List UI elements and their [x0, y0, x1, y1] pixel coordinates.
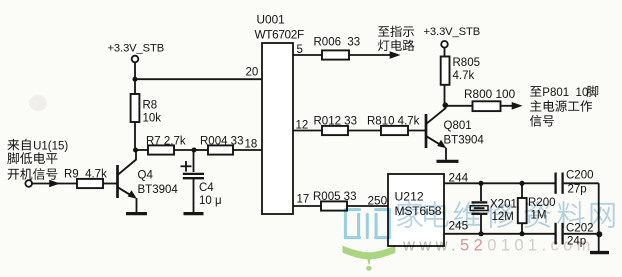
wire R800 to P801 arrow	[501, 102, 523, 110]
node R7/R004/C4 junction	[192, 148, 197, 153]
wire right rail C200/C202 to ground	[598, 183, 600, 251]
op-amp U001 WT6702F (IC box)	[255, 13, 304, 215]
node 244/R200	[520, 181, 525, 186]
svg-text:245: 245	[449, 219, 469, 233]
node R805/Q801 collector/R800 junction	[443, 102, 449, 108]
capacitor C200 27p	[556, 170, 599, 196]
svg-text:C200: C200	[566, 170, 594, 182]
resistor R012 33	[314, 116, 382, 136]
svg-text:R7 2.7k: R7 2.7k	[146, 136, 186, 148]
wire input with direction arrow	[32, 180, 77, 188]
svg-text:R8: R8	[143, 100, 158, 112]
svg-text:R9 4.7k: R9 4.7k	[64, 169, 107, 181]
resistor R7 2.7k	[136, 136, 195, 155]
node 244/X201	[479, 181, 484, 186]
transistor Q801 BT3904	[426, 105, 484, 160]
ground Q4 emitter	[126, 212, 147, 215]
svg-text:U1(15): U1(15)	[33, 141, 68, 153]
terminal input	[25, 180, 32, 187]
svg-text:27p: 27p	[568, 184, 587, 196]
watermark text 家电维修资料网	[397, 201, 614, 228]
resistor R805 4.7k	[441, 48, 480, 106]
node supply/R8/pin20 junction	[133, 77, 138, 82]
watermark logo book icon	[345, 210, 389, 238]
power +3.3V_STB (right)	[424, 26, 481, 48]
svg-text:R805: R805	[453, 57, 481, 69]
crystal X201 12M	[470, 183, 517, 234]
ground right rail	[590, 251, 609, 254]
watermark logo green book base	[343, 246, 396, 265]
label to indicator lamp circuit	[378, 26, 414, 51]
resistor R005 33	[313, 191, 388, 211]
svg-text:+3.3V_STB: +3.3V_STB	[424, 26, 481, 38]
resistor R800 100	[445, 87, 515, 111]
transistor Q4 BT3904	[118, 150, 179, 212]
wire pin5 to R006	[293, 54, 322, 56]
svg-text:R012 33: R012 33	[314, 116, 357, 128]
wire pin 244 net	[444, 182, 555, 184]
wire supply to node	[134, 62, 136, 79]
capacitor C202 24p	[556, 223, 599, 248]
svg-text:U001: U001	[257, 13, 285, 27]
faint scan smudge	[29, 95, 47, 111]
svg-text:17: 17	[297, 194, 310, 206]
svg-text:R004 33: R004 33	[200, 136, 243, 148]
node C202/rail	[596, 231, 602, 237]
wire node to U001 pin 20	[135, 78, 262, 80]
svg-text:10k: 10k	[143, 113, 162, 125]
svg-text:Q4: Q4	[138, 170, 154, 182]
wire pin12 to R012	[293, 130, 322, 132]
op-amp U212 MST6i58 (IC box)	[388, 174, 444, 246]
node R8/R7/Q4 collector junction	[133, 148, 138, 153]
resistor R004 33	[194, 136, 262, 155]
wire R006 to indicator arrow	[349, 51, 401, 59]
svg-text:R006 33: R006 33	[314, 37, 361, 49]
svg-text:C4: C4	[199, 182, 214, 194]
resistor R8 10k	[131, 79, 162, 150]
svg-text:250: 250	[368, 194, 388, 208]
svg-text:www.520101.com: www.520101.com	[402, 237, 595, 255]
node 245/X201	[479, 231, 484, 236]
svg-text:BT3904: BT3904	[138, 184, 179, 196]
svg-text:Q801: Q801	[444, 120, 472, 132]
svg-text:10 μ: 10 μ	[199, 195, 222, 207]
ground C4	[184, 212, 204, 215]
resistor R810 4.7k	[367, 116, 425, 136]
svg-text:WT6702F: WT6702F	[255, 28, 304, 42]
capacitor C4 10u electrolytic	[181, 150, 222, 212]
ground Q801 emitter	[437, 160, 459, 163]
power +3.3V_STB (left)	[108, 42, 165, 62]
svg-text:BT3904: BT3904	[444, 135, 485, 147]
label input signal text	[7, 139, 68, 180]
svg-text:4.7k: 4.7k	[453, 70, 475, 82]
wire pin 245 net	[444, 233, 555, 235]
svg-text:244: 244	[449, 171, 469, 185]
svg-text:R810 4.7k: R810 4.7k	[367, 116, 420, 128]
wire pin17 to R005	[293, 205, 321, 207]
svg-text:R005 33: R005 33	[313, 191, 356, 203]
resistor R9 4.7k	[64, 169, 117, 189]
svg-text:20: 20	[246, 67, 259, 79]
resistor R006 33	[314, 37, 361, 60]
resistor R200 1M	[518, 183, 556, 234]
svg-text:18: 18	[245, 139, 258, 151]
svg-text:+3.3V_STB: +3.3V_STB	[108, 42, 165, 54]
svg-text:P801 10: P801 10	[542, 87, 588, 99]
node 245/R200	[520, 231, 525, 236]
svg-text:R800 100: R800 100	[464, 87, 516, 101]
label to P801 pin10 main power signal	[530, 86, 598, 127]
